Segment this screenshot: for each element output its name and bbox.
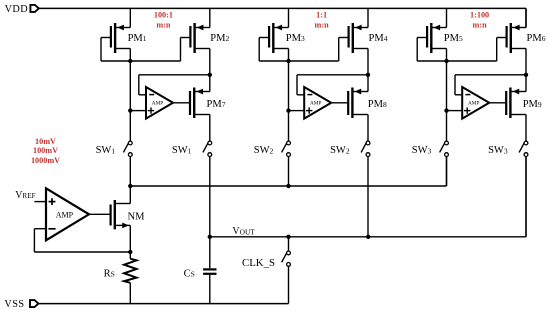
wire right switch to VOUT rail <box>525 157 527 237</box>
wire PM1 gate lead down <box>100 38 102 62</box>
node PM5 drain/gate junction <box>444 59 448 63</box>
switch SW2 (left) <box>282 141 291 156</box>
wire AMP8 inverting feedback <box>297 75 368 95</box>
wire PM3 gate lead down <box>258 38 260 62</box>
label step list 10mV/100mV/1000mV <box>31 137 60 165</box>
svg-text:CS: CS <box>184 269 195 280</box>
transistor PM8 <box>348 88 368 119</box>
wire SW3 left drop <box>446 157 448 186</box>
node feedback junction <box>366 73 370 77</box>
label mirror ratio 100:1 <box>154 11 173 30</box>
node feedback junction <box>524 73 528 77</box>
wire AMP9 inverting feedback <box>455 75 526 95</box>
wire gate bus <box>417 60 497 62</box>
svg-text:AMP: AMP <box>310 100 322 106</box>
op-amp U0 (VREF buffer) <box>46 188 89 240</box>
wire PM4 drain to PM8 source <box>367 49 369 92</box>
wire VREF to plus input <box>34 201 46 203</box>
svg-text:100mV: 100mV <box>33 146 58 155</box>
switch CLK_S <box>282 251 291 266</box>
op-amp AMP8 <box>304 87 331 119</box>
svg-text:SW1: SW1 <box>96 145 116 156</box>
node NM drain junction <box>128 184 132 188</box>
svg-text:m:n: m:n <box>156 21 171 30</box>
svg-text:m:n: m:n <box>473 21 488 30</box>
switch SW1 (right) <box>203 141 212 156</box>
wire AMP9 output <box>489 102 506 104</box>
svg-text:AMP: AMP <box>468 100 480 106</box>
wire PM8 drain to switch <box>367 115 369 142</box>
node plus-input junction <box>128 108 132 112</box>
wire U0 output to NM gate <box>89 213 111 215</box>
svg-text:PM7: PM7 <box>207 99 226 110</box>
wire PM2 source to VDD <box>209 8 211 27</box>
node plus-input junction <box>444 108 448 112</box>
svg-text:AMP: AMP <box>56 210 74 219</box>
wire PM4 source to VDD <box>367 8 369 27</box>
svg-text:PM6: PM6 <box>527 33 546 44</box>
wire PM7 drain to switch <box>209 115 211 142</box>
wire right switch to VOUT rail <box>209 157 211 237</box>
wire left switch to bus <box>446 157 448 186</box>
label mirror ratio 1:1 <box>315 11 330 30</box>
op-amp AMP9 <box>462 87 489 119</box>
wire PM9 drain to switch <box>525 115 527 142</box>
svg-text:VSS: VSS <box>4 299 24 310</box>
resistor RS <box>124 252 136 304</box>
transistor PM7 <box>190 88 210 119</box>
transistor PM4 <box>339 23 368 53</box>
wire left switch to bus <box>288 157 290 186</box>
svg-text:VDD: VDD <box>5 4 29 15</box>
capacitor CS <box>203 237 216 304</box>
wire PM6 drain to PM9 source <box>525 49 527 92</box>
wire gate bus <box>259 60 339 62</box>
wire PM2 gate lead down <box>180 38 182 62</box>
svg-text:SW3: SW3 <box>488 145 508 156</box>
port VDD <box>30 5 38 12</box>
switch SW3 (right) <box>519 141 528 156</box>
wire AMP7 output <box>173 102 190 104</box>
svg-text:SW1: SW1 <box>172 145 192 156</box>
svg-text:SW2: SW2 <box>254 145 274 156</box>
transistor PM1 <box>101 23 130 53</box>
svg-text:PM4: PM4 <box>369 33 388 44</box>
node VOUT/CS junction <box>208 235 212 239</box>
wire left column to switch <box>446 61 448 141</box>
wire PM1 drain down to node <box>129 49 131 62</box>
wire right switch to VOUT rail <box>367 157 369 237</box>
svg-text:PM3: PM3 <box>286 33 305 44</box>
VDD rail <box>39 7 526 9</box>
wire AMP8 non-inverting input <box>289 110 305 112</box>
transistor PM3 <box>259 23 288 53</box>
wire PM4 gate lead down <box>338 38 340 62</box>
wire PM5 drain down to node <box>446 49 448 62</box>
wire NM source down <box>129 225 131 252</box>
svg-text:AMP: AMP <box>152 100 164 106</box>
svg-text:VOUT: VOUT <box>232 226 255 237</box>
switch SW3 (left) <box>440 141 449 156</box>
svg-text:m:n: m:n <box>315 21 330 30</box>
svg-text:1000mV: 1000mV <box>31 156 60 165</box>
svg-text:SW3: SW3 <box>412 145 432 156</box>
wire PM1 source to VDD <box>129 8 131 27</box>
wire VOUT rail <box>210 236 526 238</box>
wire AMP7 non-inverting input <box>130 110 146 112</box>
svg-text:PM8: PM8 <box>368 99 387 110</box>
transistor PM2 <box>181 23 210 53</box>
wire PM5 source to VDD <box>446 8 448 27</box>
svg-text:SW2: SW2 <box>330 145 350 156</box>
wire AMP7 inverting feedback <box>139 75 210 95</box>
node SW2 left junction on bus <box>286 184 290 188</box>
wire SW3 right drop to VOUT <box>525 157 527 237</box>
svg-text:PM5: PM5 <box>444 33 463 44</box>
node plus-input junction <box>286 108 290 112</box>
svg-text:RS: RS <box>104 269 115 280</box>
op-amp AMP7 <box>146 87 173 119</box>
svg-text:100:1: 100:1 <box>154 11 173 20</box>
wire PM5 gate lead down <box>416 38 418 62</box>
switch SW1 (left) <box>123 141 132 156</box>
transistor PM5 <box>417 23 446 53</box>
transistor PM6 <box>497 23 526 53</box>
svg-text:1:1: 1:1 <box>316 11 327 20</box>
wire mid bus (NM drain to SW3 left) <box>130 185 446 187</box>
node feedback junction <box>208 73 212 77</box>
svg-text:VREF: VREF <box>15 190 35 201</box>
wire U0 feedback (minus input) <box>34 229 130 252</box>
wire AMP8 output <box>331 102 348 104</box>
svg-text:NM: NM <box>128 211 146 222</box>
node PM3 drain/gate junction <box>286 59 290 63</box>
wire PM3 source to VDD <box>288 8 290 27</box>
node PM1 drain/gate junction <box>128 59 132 63</box>
wire gate bus <box>101 60 181 62</box>
switch SW2 (right) <box>361 141 370 156</box>
VSS rail <box>38 303 288 305</box>
svg-text:CLK_S: CLK_S <box>242 257 275 269</box>
svg-text:PM2: PM2 <box>210 33 229 44</box>
svg-text:10mV: 10mV <box>35 137 56 146</box>
wire PM2 drain to PM7 source <box>209 49 211 92</box>
wire AMP9 non-inverting input <box>447 110 463 112</box>
transistor NM <box>111 200 131 229</box>
wire CLK_S to VSS <box>288 266 290 303</box>
transistor PM9 <box>506 88 526 119</box>
wire left column to switch <box>288 61 290 141</box>
wire PM6 gate lead down <box>496 38 498 62</box>
node SW2 right junction <box>366 235 370 239</box>
wire left switch to bus <box>129 157 131 186</box>
label mirror ratio 1:100 <box>470 11 489 30</box>
port VSS <box>30 300 38 307</box>
svg-text:PM1: PM1 <box>128 33 147 44</box>
wire VOUT to CLK_S <box>288 237 290 251</box>
wire PM3 drain down to node <box>288 49 290 62</box>
wire PM6 source to VDD <box>525 8 527 27</box>
wire left column to switch <box>129 61 131 141</box>
node NM source / feedback / RS junction <box>128 250 132 254</box>
wire VDD rail right end down to PM6 source <box>525 8 527 27</box>
node CLK_S junction <box>286 235 290 239</box>
svg-text:1:100: 1:100 <box>470 11 489 20</box>
wire NM drain up to bus <box>129 186 131 204</box>
svg-text:PM9: PM9 <box>523 99 542 110</box>
